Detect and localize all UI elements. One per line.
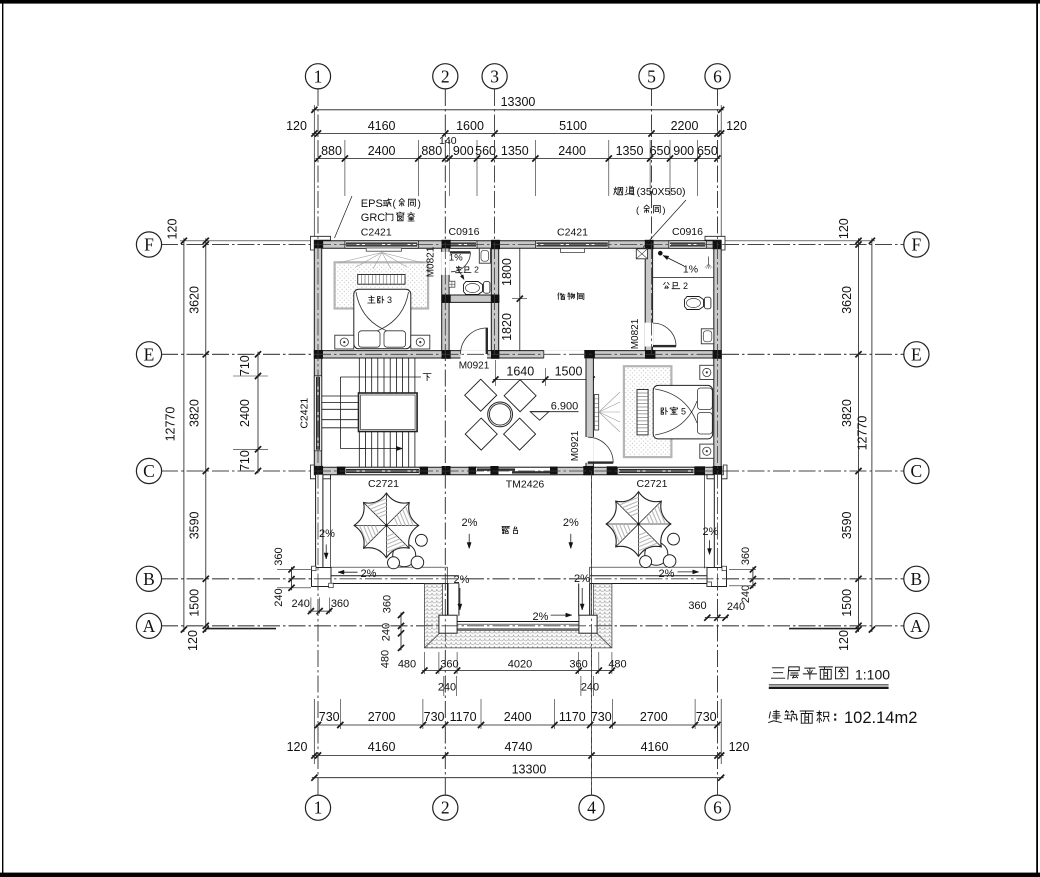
grid line E [161, 353, 904, 355]
bay dim right vertical 360/240 [752, 567, 754, 588]
svg-text:E: E [144, 344, 155, 364]
west wall g1 [314, 241, 321, 475]
svg-text:1350: 1350 [616, 144, 644, 158]
corner trim NW [311, 236, 331, 250]
curtain fan lines from window [338, 253, 382, 264]
svg-text:360: 360 [382, 595, 394, 613]
post C2 (g4 bay) [579, 615, 597, 633]
washbasin bath2 [701, 329, 714, 344]
slope 2% B west arrow [338, 571, 358, 573]
door M0921 bedroom5 leaf [588, 461, 613, 463]
svg-text:C0916: C0916 [672, 226, 703, 238]
svg-text:C: C [911, 461, 923, 481]
bay bottom chain 480/360/4020/360/480 [422, 670, 615, 672]
corner trim SE [707, 465, 727, 479]
svg-text:360: 360 [273, 547, 285, 565]
level marker 6.900 [530, 412, 549, 421]
svg-text:(350X550): (350X550) [637, 186, 686, 198]
svg-text:240: 240 [438, 682, 456, 694]
svg-text:360: 360 [440, 659, 458, 671]
top dimension chain row3 [316, 158, 720, 160]
svg-text:6: 6 [713, 798, 722, 818]
svg-text:3: 3 [387, 295, 392, 305]
shower head symbol [708, 257, 710, 265]
door M0821 master bath arc [451, 252, 470, 271]
svg-text:1:100: 1:100 [855, 667, 890, 683]
label 公卫2 [664, 282, 666, 284]
svg-text:2: 2 [683, 281, 688, 291]
grid lines overlay [317, 89, 319, 795]
svg-text:650: 650 [697, 144, 718, 158]
svg-text:1%: 1% [449, 253, 463, 264]
left dimension chains [205, 238, 207, 632]
bay dim left chain 360/240/480 [400, 613, 402, 651]
stair lower flight risers [358, 432, 360, 468]
svg-text:2%: 2% [703, 526, 719, 538]
svg-text:F: F [912, 235, 922, 255]
svg-text:240: 240 [273, 588, 285, 606]
post D (g6/B) [707, 568, 727, 587]
grid bubbles right [904, 232, 929, 257]
svg-text:240: 240 [292, 598, 310, 610]
gutter miter lines [424, 630, 442, 648]
shower partition line [653, 277, 714, 279]
top dimension chain 13300 [312, 109, 724, 111]
svg-text:): ) [418, 199, 421, 210]
svg-text:710: 710 [238, 355, 252, 376]
window jamb blocks C wall [337, 467, 345, 475]
E wall opening 1500 (dining/storage) [544, 350, 587, 358]
interior wall bath / storage [491, 248, 498, 350]
svg-text:5: 5 [647, 66, 656, 86]
B parapet east segment [590, 576, 708, 584]
bay parapet south [457, 622, 579, 630]
rug stipple master bedroom [335, 262, 429, 308]
svg-text:4020: 4020 [508, 659, 532, 671]
svg-text:710: 710 [238, 450, 252, 471]
svg-text:360: 360 [740, 547, 752, 565]
svg-text:4160: 4160 [368, 119, 396, 133]
bay dim below post A 240/360 [308, 610, 331, 612]
window C2721 a (C wall) [345, 467, 420, 474]
grid line 2 [444, 89, 446, 795]
svg-text:M0821: M0821 [630, 318, 641, 349]
bottom dimension chain 13300 [312, 777, 724, 779]
svg-text:C0916: C0916 [449, 226, 480, 238]
svg-text:1: 1 [314, 798, 323, 818]
svg-text:2%: 2% [361, 568, 377, 580]
svg-text:C2421: C2421 [557, 227, 588, 239]
east terrace parapet [714, 475, 721, 569]
flue annotation [614, 187, 616, 195]
grid line 4 [591, 354, 593, 794]
svg-text:730: 730 [696, 710, 717, 724]
columns [314, 240, 323, 249]
svg-text:730: 730 [319, 710, 340, 724]
svg-text:730: 730 [424, 710, 445, 724]
toilet bath2 [685, 297, 704, 310]
svg-text:1170: 1170 [559, 710, 586, 724]
svg-text:M0921: M0921 [570, 430, 581, 461]
plant balls left [416, 534, 428, 546]
svg-text:360: 360 [688, 600, 706, 612]
post A (g1/B) [312, 568, 332, 587]
nightstand left [335, 335, 354, 349]
window C2421 c (west wall) [314, 376, 321, 451]
svg-text:13300: 13300 [512, 763, 547, 777]
grid line F [161, 244, 904, 246]
B parapet west segment [331, 576, 459, 584]
nightstand right [411, 335, 430, 349]
door M0821 bath2 leaf [653, 345, 676, 347]
title 三层平面图 1:100 [772, 667, 784, 669]
svg-text:2700: 2700 [640, 710, 668, 724]
door M0821 master bath leaf [450, 251, 470, 253]
EPS leader line [335, 196, 353, 238]
door opening M0821 bath2 [645, 323, 653, 347]
stair path line down [339, 377, 341, 449]
flue 烟道 [636, 249, 647, 259]
window C0916 a (F wall) [450, 241, 478, 248]
svg-text:C2721: C2721 [368, 478, 399, 490]
bay dim below post D 360/240 [705, 617, 728, 619]
svg-text:M0921: M0921 [459, 361, 490, 372]
svg-text:1600: 1600 [456, 119, 484, 133]
sill mark under C2421 b [561, 249, 585, 253]
bed master bedroom [354, 289, 411, 349]
umbrella left [393, 544, 416, 567]
svg-text:120: 120 [286, 119, 307, 133]
witness lines outer faces [180, 240, 314, 242]
svg-text:6: 6 [713, 66, 722, 86]
label 卧室5 [661, 407, 663, 409]
svg-text:4: 4 [587, 798, 596, 818]
grid line 6 [717, 89, 719, 795]
gutter fish-scale band [424, 584, 612, 648]
svg-text:120: 120 [837, 630, 851, 651]
svg-text:2%: 2% [319, 528, 335, 540]
svg-text:C2421: C2421 [361, 226, 392, 238]
svg-text:1500: 1500 [188, 589, 202, 617]
bay step parapet east [579, 584, 590, 616]
pillows bedroom5 [698, 388, 713, 410]
svg-text:2400: 2400 [504, 710, 532, 724]
umbrella right [645, 542, 668, 565]
bay dim left vertical 360/240 [291, 567, 293, 590]
door opening M0921 bedroom5 [586, 437, 594, 463]
interior dim 1800 1820 [519, 242, 521, 357]
svg-text:C2721: C2721 [637, 478, 668, 490]
grid bubbles top [305, 64, 330, 89]
interior wall master bed / bath [442, 248, 449, 350]
svg-text:4160: 4160 [368, 740, 396, 754]
svg-text:): ) [662, 205, 665, 216]
label 主卫2 [457, 265, 460, 268]
flue leader line [643, 200, 686, 248]
svg-text:730: 730 [591, 710, 612, 724]
svg-text:3820: 3820 [840, 399, 854, 427]
door M0921 closet arc [461, 328, 487, 354]
svg-text:560: 560 [475, 144, 496, 158]
svg-text:1: 1 [314, 66, 323, 86]
bed bedroom5 [653, 385, 713, 439]
svg-text:1800: 1800 [500, 258, 514, 286]
door TM2426 (C wall) [469, 467, 558, 474]
cabinet strip bedroom5 [637, 390, 648, 435]
svg-text:5: 5 [681, 406, 686, 416]
svg-text:1170: 1170 [450, 710, 477, 724]
svg-text:880: 880 [321, 144, 342, 158]
door M0821 bath2 arc [653, 323, 676, 346]
svg-text:2%: 2% [454, 574, 470, 586]
svg-text:2700: 2700 [368, 710, 396, 724]
svg-text:C2421: C2421 [299, 398, 311, 429]
terrace floor edge to bay (east) [590, 567, 708, 576]
right dimension chains [858, 238, 860, 632]
label 储物间 [558, 293, 559, 295]
text 下 [423, 373, 431, 375]
plant balls right [668, 533, 680, 545]
svg-text:2200: 2200 [671, 119, 699, 133]
svg-text:102.14m2: 102.14m2 [844, 709, 917, 727]
svg-text:1820: 1820 [500, 313, 514, 341]
window C0916 b (F wall) [669, 241, 707, 248]
floor drain master bath [449, 281, 455, 287]
bay step parapet west [448, 584, 459, 616]
label 主卧3 [370, 295, 373, 298]
svg-text:120: 120 [837, 218, 851, 239]
stair void opening [359, 393, 418, 432]
svg-text:2: 2 [441, 798, 450, 818]
svg-text:1640: 1640 [506, 365, 534, 379]
svg-text:1500: 1500 [555, 365, 583, 379]
grid bubbles left [136, 232, 161, 257]
interior wall storage / bath2 [645, 248, 652, 350]
window C2421 a (F wall) [345, 241, 418, 248]
corner trim SW [311, 465, 331, 479]
svg-text:120: 120 [186, 630, 200, 651]
area 建筑面积 102.14m2 [775, 710, 777, 720]
svg-text:2400: 2400 [368, 144, 396, 158]
svg-text:3: 3 [490, 66, 499, 86]
wardrobe cabinet strip [358, 275, 405, 285]
svg-text:C: C [143, 461, 155, 481]
svg-text:B: B [911, 569, 923, 589]
top dimension chain row2 [312, 133, 724, 135]
grid line 5 [651, 89, 653, 354]
nightstands bedroom5 [700, 365, 714, 379]
svg-text:3620: 3620 [840, 286, 854, 314]
terrace floor edge to bay (west) [331, 567, 447, 576]
svg-text:4740: 4740 [504, 740, 532, 754]
svg-text:2%: 2% [563, 517, 579, 529]
svg-text:6.900: 6.900 [551, 401, 579, 413]
svg-text:M0821: M0821 [426, 246, 437, 277]
chairs (diamonds) [465, 379, 497, 411]
svg-text:360: 360 [331, 598, 349, 610]
svg-text:2400: 2400 [238, 399, 252, 427]
east terrace floor edge line [704, 475, 706, 569]
svg-text:2400: 2400 [558, 144, 586, 158]
corner trim NE [705, 236, 725, 250]
svg-text:120: 120 [729, 740, 750, 754]
E wall [314, 351, 721, 358]
svg-text:12770: 12770 [164, 407, 178, 442]
svg-text:E: E [911, 344, 922, 364]
svg-text:F: F [144, 235, 154, 255]
door M0921 closet leaf [486, 328, 488, 354]
label 露台 [502, 526, 510, 528]
grid line 3 [494, 89, 496, 354]
rug stipple bedroom5 [624, 366, 672, 457]
svg-text:2%: 2% [462, 517, 478, 529]
east wall g6 [714, 241, 721, 475]
west terrace parapet [316, 475, 323, 568]
table circle [488, 402, 513, 427]
svg-text:12770: 12770 [856, 416, 870, 451]
svg-text:2%: 2% [659, 568, 675, 580]
svg-text:5100: 5100 [559, 119, 587, 133]
left sub chain 710 2400 710 [257, 352, 259, 474]
svg-text:2: 2 [474, 265, 479, 275]
svg-text:13300: 13300 [501, 95, 536, 109]
toilet master bath [464, 282, 483, 295]
svg-text:120: 120 [726, 119, 747, 133]
svg-text:4160: 4160 [641, 740, 669, 754]
svg-text:240: 240 [581, 682, 599, 694]
stair upper flight risers [358, 358, 360, 393]
svg-text:2: 2 [441, 66, 450, 86]
pillow left [359, 331, 381, 347]
svg-text:480: 480 [380, 650, 392, 668]
interior dim 1640 1500 [493, 379, 594, 381]
door opening M0821 bath [441, 252, 449, 275]
svg-text:480: 480 [398, 659, 416, 671]
svg-text:140: 140 [439, 135, 457, 147]
bottom dimension chain row1 [316, 724, 720, 726]
svg-text:1%: 1% [683, 264, 698, 276]
washbasin master bath [479, 248, 490, 263]
pillow right [384, 331, 406, 347]
svg-text:120: 120 [166, 219, 180, 240]
grid line C [161, 470, 904, 472]
svg-text:1350: 1350 [501, 144, 529, 158]
wall strip + fan lines bedroom5 [594, 395, 598, 431]
window sill box master bedroom [366, 248, 401, 251]
svg-text:1500: 1500 [840, 589, 854, 617]
svg-text:EPS: EPS [361, 198, 383, 210]
bedroom5 west wall [586, 358, 593, 467]
svg-text:B: B [143, 569, 155, 589]
bottom dimension chain row2 [312, 755, 724, 757]
svg-text:120: 120 [287, 740, 308, 754]
svg-text:A: A [143, 616, 156, 636]
svg-text:650: 650 [650, 144, 671, 158]
svg-text:A: A [910, 616, 923, 636]
door M0921 bedroom5 arc [588, 437, 613, 462]
svg-text:2%: 2% [533, 611, 549, 623]
post B2 (g2 bay) [439, 615, 457, 633]
F wall (north exterior) [314, 241, 721, 248]
svg-text:3590: 3590 [188, 511, 202, 539]
grid line A [161, 625, 904, 627]
svg-text:GRC: GRC [361, 212, 386, 224]
door opening M0921 closet (E wall) [461, 350, 488, 358]
svg-text:480: 480 [608, 659, 626, 671]
stair winder treads [322, 395, 359, 397]
grid bubbles bottom [305, 795, 330, 820]
svg-text:900: 900 [673, 144, 694, 158]
window C2721 b (C wall) [618, 467, 695, 474]
svg-text:3620: 3620 [188, 286, 202, 314]
C wall [314, 467, 721, 474]
bath south wall [442, 295, 499, 302]
grid line B [161, 578, 904, 580]
window C2421 b (F wall) [535, 241, 608, 248]
slope dot and 1 percent bath2 [658, 251, 663, 256]
grid line 1 [317, 89, 319, 795]
svg-text:3820: 3820 [188, 399, 202, 427]
west terrace floor edge line [330, 475, 332, 568]
svg-text:3590: 3590 [840, 511, 854, 539]
svg-text:TM2426: TM2426 [506, 479, 545, 491]
svg-text:240: 240 [727, 601, 745, 613]
